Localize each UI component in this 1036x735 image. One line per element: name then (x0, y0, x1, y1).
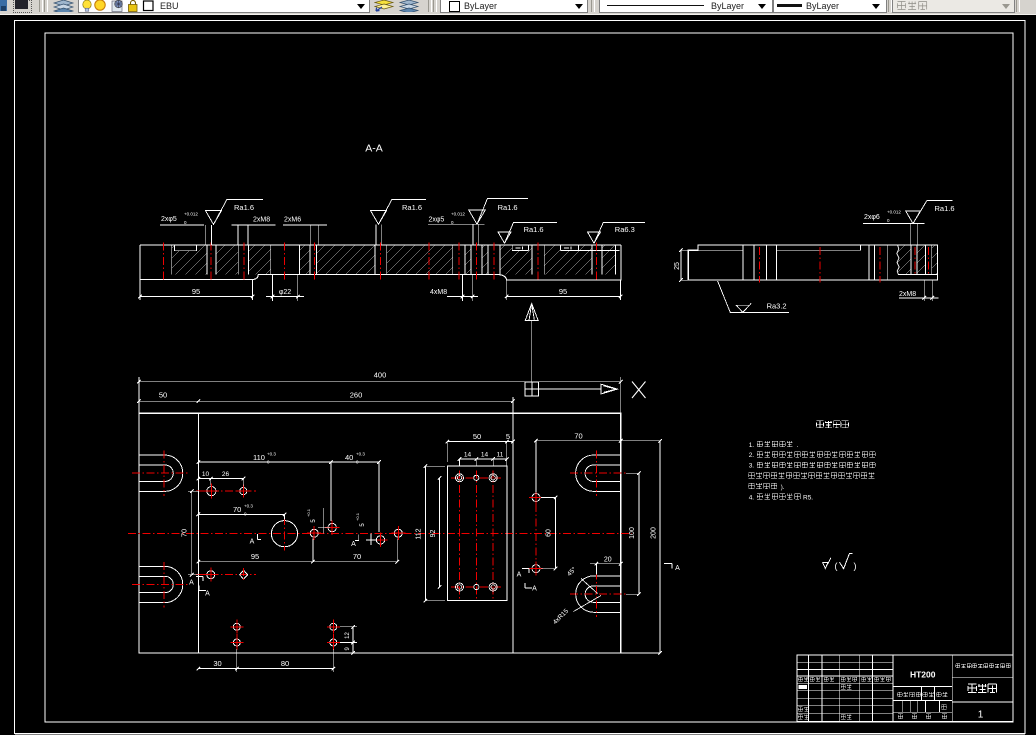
dim 30 80 (236, 649, 238, 672)
svg-text:4.: 4. (749, 494, 755, 501)
leader 4xR15 (574, 596, 602, 612)
svg-text:50: 50 (159, 391, 167, 400)
layer combo (78, 0, 370, 13)
dim 95 70 row (198, 561, 397, 563)
svg-text:Ra1.6: Ra1.6 (524, 225, 544, 234)
svg-text:Ra1.6: Ra1.6 (402, 203, 422, 212)
dim 40+0.3 (331, 461, 379, 463)
layers icon (52, 0, 75, 12)
svg-text:Ra1.6: Ra1.6 (935, 204, 955, 213)
dim 200 vertical (659, 441, 661, 653)
svg-text:A: A (532, 586, 537, 593)
wire : right section verticals (743, 245, 932, 280)
node surface check C4 Ra1.6 (498, 232, 511, 243)
node tiny counterbore dims (513, 246, 528, 251)
icon dark square button (13, 0, 32, 13)
dim 70 vertical left (191, 491, 193, 575)
svg-text:20: 20 (604, 556, 612, 563)
svg-text:25: 25 (674, 262, 681, 270)
wire : hole edge verticals section A-A (172, 245, 616, 275)
svg-text:2xM8: 2xM8 (899, 291, 916, 298)
wire : plan feature line x513 (512, 413, 514, 653)
svg-text:400: 400 (374, 370, 387, 379)
wire : right section ledge (698, 245, 861, 251)
wire : red centerlines right section (759, 247, 761, 283)
wire : top notch in section (174, 245, 196, 250)
dim 25 left of right section (680, 250, 682, 280)
svg-text:Ra3.2: Ra3.2 (767, 301, 787, 310)
svg-text:4xM8: 4xM8 (430, 289, 447, 296)
dim 112 92 vertical (424, 466, 426, 601)
linetype combo (599, 0, 773, 13)
hole bottom quads (233, 623, 240, 630)
svg-text:1.: 1. (749, 442, 755, 449)
svg-text:(: ( (835, 561, 838, 571)
icon partial left (0, 0, 7, 11)
svg-text:2xφ5: 2xφ5 (429, 217, 445, 224)
svg-text:50: 50 (473, 432, 481, 441)
svg-text:30: 30 (213, 659, 221, 668)
freeze/sheet (112, 1, 122, 12)
svg-text:+0.3: +0.3 (356, 452, 365, 457)
svg-text:Ra1.6: Ra1.6 (234, 203, 254, 212)
svg-text:70: 70 (353, 552, 361, 561)
svg-text:100: 100 (629, 527, 636, 539)
hole big circle phi22 (271, 521, 297, 547)
node tech requirements title (817, 421, 824, 428)
hole center row (310, 529, 318, 537)
svg-text:60: 60 (546, 529, 553, 537)
svg-text:+0.012: +0.012 (887, 210, 901, 215)
node surface check C5 Ra6.3 (587, 232, 600, 243)
node U-slot bottom-left (139, 566, 183, 602)
dim phi22 (272, 275, 274, 302)
svg-text:R5.: R5. (803, 494, 813, 501)
two layer tool icons (374, 0, 420, 12)
node perp A mark right (664, 563, 672, 565)
color swatch (144, 1, 154, 11)
hatch : section A-A cross hatching (172, 245, 207, 275)
separator (39, 0, 43, 12)
node surface check C6 Ra1.6 (906, 211, 921, 224)
dim 100 vertical (638, 473, 640, 594)
svg-text:A: A (250, 539, 255, 546)
svg-text:70: 70 (574, 431, 582, 440)
svg-text:+0.012: +0.012 (184, 212, 198, 217)
node main red centerline (128, 533, 632, 535)
svg-text:92: 92 (430, 530, 437, 538)
svg-text:Ra1.6: Ra1.6 (498, 203, 518, 212)
dim 60 vertical right (555, 498, 557, 569)
leader 45 deg (581, 579, 598, 594)
svg-text:+0.3: +0.3 (267, 452, 276, 457)
node surface check C1 Ra1.6 (206, 211, 222, 225)
dim 70+0.3 (198, 513, 284, 515)
dim 50 5 pattern (446, 442, 448, 462)
svg-text:1: 1 (978, 710, 984, 721)
node surface finish legend (823, 562, 828, 568)
svg-text:11: 11 (497, 452, 504, 459)
dim 14 14 11 (459, 459, 461, 466)
svg-text:110: 110 (253, 453, 265, 462)
svg-text:40: 40 (345, 453, 353, 462)
svg-text:95: 95 (192, 287, 200, 296)
wire : ledge lines right part (512, 245, 619, 250)
wire : plan view outline (139, 413, 621, 653)
node surface check C2 Ra1.6 (371, 211, 387, 225)
svg-text:3.: 3. (749, 463, 755, 470)
dim 400 (138, 377, 140, 413)
sun (95, 0, 105, 10)
node datum square symbol (525, 382, 538, 396)
svg-text:Ra6.3: Ra6.3 (615, 225, 635, 234)
wire : red centerlines section A-A (162, 243, 164, 282)
dim 95 left (139, 280, 141, 301)
hole top pair left (196, 490, 256, 492)
svg-text:A: A (189, 580, 194, 587)
svg-text:+0.1: +0.1 (355, 512, 360, 521)
svg-text:70: 70 (233, 505, 241, 514)
svg-text:2xφ6: 2xφ6 (864, 214, 880, 221)
hole right column x536 (535, 490, 537, 577)
node hole pattern rectangle (447, 466, 507, 601)
svg-text:95: 95 (251, 552, 259, 561)
svg-text:26: 26 (222, 471, 230, 478)
dim 70 top right (535, 441, 537, 493)
dim 10 26 (198, 478, 243, 480)
dim 110+0.3 (198, 461, 331, 463)
hole lower-left pair (196, 574, 256, 576)
dim 4xM8 (462, 275, 464, 302)
svg-text:200: 200 (650, 527, 657, 539)
bulb (83, 0, 91, 9)
svg-text:): ) (854, 561, 857, 571)
svg-text:HT200: HT200 (910, 670, 936, 680)
svg-text:A: A (517, 572, 522, 579)
svg-text:80: 80 (281, 659, 289, 668)
svg-text:φ22: φ22 (279, 289, 291, 296)
svg-text:5: 5 (506, 432, 510, 441)
wire X arrow (539, 388, 602, 390)
svg-text:A: A (205, 591, 210, 598)
node X label (632, 382, 646, 399)
svg-text:+0.3: +0.3 (244, 504, 253, 509)
wire : right section foot line (898, 273, 938, 275)
plot style combo disabled (892, 0, 1015, 13)
dim 95 right (506, 280, 508, 300)
dim 12 9 (340, 626, 357, 628)
dim 20 (595, 564, 597, 575)
svg-text:10: 10 (202, 471, 210, 478)
svg-text:).: ). (781, 485, 785, 491)
color combo (440, 0, 588, 13)
svg-text:A: A (675, 565, 680, 572)
lineweight combo (773, 0, 887, 13)
node U-slot top-left (139, 455, 183, 491)
svg-text:2xφ5: 2xφ5 (161, 216, 177, 223)
hatch right section end (898, 245, 912, 275)
svg-text:14: 14 (481, 452, 489, 459)
wire : break line wavy (897, 245, 899, 275)
node title block table (797, 655, 1013, 721)
wire : right section body (688, 245, 937, 280)
wire : section A-A body outline (140, 245, 621, 280)
wire : plan feature line x198 (197, 413, 199, 653)
svg-text:95: 95 (559, 287, 567, 296)
svg-text:A: A (351, 541, 356, 548)
node U-slot top-right (576, 455, 621, 491)
svg-text:A-A: A-A (365, 143, 383, 155)
svg-text:14: 14 (464, 452, 472, 459)
svg-text:112: 112 (416, 528, 423, 539)
svg-text:+0.012: +0.012 (451, 212, 465, 217)
svg-text:12: 12 (345, 632, 351, 639)
svg-text:2xM6: 2xM6 (284, 217, 301, 224)
dim 50 260 (139, 400, 513, 402)
lock (129, 5, 138, 12)
svg-text:2.: 2. (749, 452, 755, 459)
node section arrow up (525, 304, 538, 321)
svg-text:+0.1: +0.1 (306, 508, 311, 517)
node surface check C3 Ra1.6 (469, 210, 485, 224)
svg-text:2xM8: 2xM8 (253, 217, 270, 224)
node U-slot bottom-right (576, 576, 621, 612)
node surface check C7 Ra3.2 below (718, 281, 731, 312)
svg-text:70: 70 (180, 529, 189, 537)
svg-text:260: 260 (350, 391, 363, 400)
